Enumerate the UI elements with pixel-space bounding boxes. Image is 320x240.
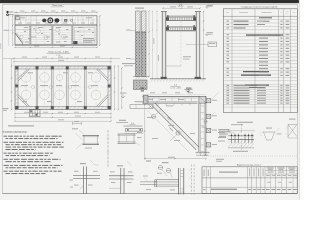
corner plan leader line to spec table: [215, 92, 220, 97]
plan 2 internal partition walls: [36, 69, 86, 106]
stray small marks right of notes: [70, 180, 74, 188]
detail dashed strip right: [189, 165, 195, 195]
corner plan diagonal brace: [152, 103, 198, 149]
svg-text:на отм. +4,800: на отм. +4,800: [170, 87, 181, 89]
brick wall left leader marks: [126, 30, 136, 59]
svg-text:Обозначение: Обозначение: [239, 12, 248, 14]
specification table body text smudges: [227, 21, 290, 104]
detail small beam end: [140, 176, 157, 190]
corner plan node callout circles: [151, 109, 162, 119]
embedded plate caption: [233, 150, 248, 153]
plan 2 outer wall rectangle with hatch band: [15, 66, 111, 110]
plan 1 right room inner rectangle: [74, 28, 95, 43]
plan 1 channel lines in rooms: [15, 26, 97, 44]
scan dark bar top edge: [0, 0, 300, 3]
plan 2 bottom sump protrusion: [30, 110, 41, 117]
plan 1 outline walls: [15, 16, 97, 45]
plan 2 scale note below: [8, 125, 34, 126]
plan 1 room circles: [20, 28, 66, 39]
weld prep detail B: [261, 128, 282, 140]
plan 1 bottom dimension line: [14, 46, 97, 48]
scan smudge left edge A: [0, 43, 1, 49]
plan 1 note text block right: [83, 38, 95, 42]
detail big node with column: [155, 162, 184, 194]
section right dimension line: [203, 11, 204, 80]
corner plan right beam chords: [199, 96, 206, 156]
specification table header labels: [226, 11, 295, 15]
brick wall base line: [133, 76, 149, 78]
plan 1 left small annotation: [4, 29, 16, 32]
section top dimension line: [162, 6, 200, 8]
corner plan top-left dark labels: [140, 88, 144, 92]
section column top caps: [161, 11, 201, 13]
plan 2 bottom dimension lines: [14, 110, 111, 122]
plan 2 right elevation mark: [120, 93, 127, 98]
section right column: [196, 12, 200, 79]
plan 2 left dimension line: [11, 58, 12, 110]
brick wall base hatch: [136, 77, 148, 80]
corner plan bottom dimension line: [144, 157, 206, 160]
detail node A title: [116, 120, 128, 123]
svg-text:Условные обозначения: Условные обозначения: [3, 131, 28, 134]
scan edge right: [299, 0, 300, 200]
svg-text:Масса: Масса: [285, 11, 289, 13]
corner plan dimension smudges above beam: [150, 91, 193, 94]
section center line and mid mark: [166, 21, 191, 66]
corner plan hanging stub ticks under top beam: [150, 103, 190, 106]
section ground line with hatch: [150, 77, 206, 82]
steel table header smudges: [204, 168, 297, 177]
plan 2 wall pilaster blocks: [15, 66, 110, 109]
plan 1 corner equipment box: [16, 17, 20, 20]
stub leader marks: [211, 97, 215, 117]
section left dim tick marks: [152, 11, 159, 79]
corner plan diagonal dim smudges: [163, 116, 178, 131]
plate detail with cross ties: [130, 101, 158, 109]
svg-text:Ведомость расхода стали, кг: Ведомость расхода стали, кг: [237, 164, 261, 166]
callout mark left of plate detail: [202, 120, 208, 128]
section 2-2 title: [178, 4, 184, 6]
corner plan right beam footing: [196, 152, 210, 155]
steel table middle row faint marks: [267, 181, 292, 184]
plan 2 bay axis lines: [15, 66, 111, 110]
plan 2 room text labels: [21, 72, 98, 102]
plan 2 right dimension lines: [114, 65, 119, 110]
mini section title 1-1: [124, 123, 143, 126]
brick wall section upper hatched part: [136, 11, 147, 32]
steel table data row: [203, 189, 296, 190]
specification table grid: [223, 9, 297, 113]
plan 1 top dimension line: [15, 11, 97, 14]
brick wall section lower crosshatched part: [136, 32, 147, 77]
section detail callout box right: [186, 42, 217, 47]
detail cross node B: [73, 160, 100, 194]
embedded plate detail title: [231, 122, 253, 125]
plan 1 right dimension line: [99, 15, 100, 46]
section extra chord lines: [166, 15, 196, 31]
section beam connection tabs: [167, 15, 194, 27]
drawing frame border: [3, 4, 298, 193]
section left column: [162, 12, 166, 79]
corner plan top-left connection mark: [143, 95, 148, 103]
svg-text:Спецификация элементов закладн: Спецификация элементов закладных изделий: [241, 6, 277, 9]
corner plan top beam chords: [143, 95, 207, 103]
dotted separator line: [202, 155, 297, 157]
anchor note text block: [219, 129, 235, 136]
plan 1 left room chamfered wall: [15, 30, 30, 46]
corner plan diagonal middle line: [154, 105, 198, 149]
corner plan title: [170, 85, 181, 90]
plan 1 pump equipment dark circles: [42, 18, 72, 23]
plan 2 top dimension lines: [3, 57, 120, 66]
plan 2 extra right dimension line: [121, 67, 122, 108]
plan 2 wall hatch ticks: [15, 66, 111, 109]
detail node A beam elevation: [118, 131, 143, 146]
section left extension lines: [152, 11, 157, 79]
plan 1 legend marks top-left: [7, 11, 20, 16]
plan 1 left dimension line: [8, 15, 13, 46]
detail left I-beam with leaders: [72, 128, 99, 149]
specification table subheader rows: [241, 17, 283, 88]
foundation crosshatch block under brick wall: [134, 80, 148, 90]
plate cross-section detail: [124, 129, 143, 134]
page background: [0, 0, 300, 200]
detail dashed column axis: [107, 130, 109, 167]
plan view 2 title: [47, 51, 71, 57]
section beam 2 with bolted hatch: [166, 27, 196, 30]
steel table grid: [202, 167, 297, 194]
corner plan secondary diagonal dimension: [148, 111, 189, 152]
corner plan connection stubs on right beam: [206, 99, 217, 103]
svg-text:ввод: ввод: [14, 12, 18, 14]
svg-text:Наименование: Наименование: [262, 12, 272, 14]
plan 2 corner braces: [18, 69, 108, 106]
detail cross node C: [109, 161, 134, 194]
plan 2 note right of top dim: [122, 63, 135, 66]
corner plan elevation flag: [185, 88, 193, 93]
corner plan bottom label 5-5: [146, 161, 151, 162]
brick wall right dimension line: [148, 10, 149, 77]
corner plan top right corner gusset: [199, 96, 206, 103]
plan view 1 title: [51, 5, 64, 7]
section beam 1 with bolted hatch: [166, 17, 196, 21]
plan 1 internal walls: [30, 26, 73, 44]
plan 1 upper band partition lines: [15, 16, 97, 25]
corner plan small text labels: [147, 99, 195, 141]
svg-text:Прим: Прим: [292, 11, 295, 13]
detail dim mark upper left: [73, 121, 82, 125]
steel table small note above: [216, 159, 224, 162]
plan 1 scattered text labels: [20, 17, 92, 42]
plan 2 left corner label: [3, 108, 9, 111]
plan 1 scattered specks: [24, 29, 94, 42]
frame bottom line: [3, 193, 298, 195]
brick wall section label: [135, 8, 144, 9]
section elevation flags right: [206, 5, 214, 8]
plan 2 tank circles: [21, 73, 101, 100]
corner plan left dimension line: [144, 104, 145, 159]
plan 1 dark hatch box lower right: [74, 41, 78, 44]
legend note paragraphs: [4, 136, 64, 174]
embedded plate detail: [218, 124, 255, 150]
node 1 cross-braced plate detail: [286, 119, 298, 138]
svg-text:Кол: Кол: [280, 11, 282, 13]
